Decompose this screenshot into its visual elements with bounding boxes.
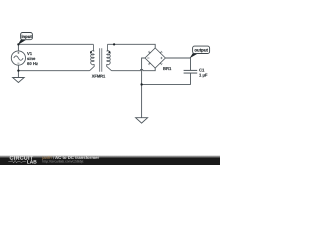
node secondary top rail dot xyxy=(113,43,115,45)
node primary phase dot xyxy=(90,51,92,53)
node V1 bottom junction xyxy=(17,70,19,72)
diode on bottom-left edge xyxy=(148,62,151,65)
wire bottom rail primary xyxy=(18,70,89,72)
wire top rail secondary to bridge top vertex xyxy=(107,44,155,48)
wire V1 top lead xyxy=(17,44,19,51)
wire bridge left vertex down to ground rail xyxy=(142,58,145,84)
wire top rail primary xyxy=(18,43,93,45)
svg-text:output: output xyxy=(194,48,208,53)
primary winding xyxy=(92,44,95,51)
wire bridge right vertex to output corner xyxy=(165,58,190,70)
capacitor C1 xyxy=(184,70,198,73)
output flag xyxy=(190,46,210,58)
svg-text:input: input xyxy=(21,34,32,39)
wire bottom rail secondary to bridge bottom vertex (hop over vertical) xyxy=(112,68,156,71)
node secondary phase dot xyxy=(109,51,111,53)
ground (left, below V1) xyxy=(13,78,25,83)
svg-text:60 Hz: 60 Hz xyxy=(27,61,38,66)
transformer XFMR1 xyxy=(90,44,112,71)
svg-text:http://circuitlab.com/c2d6bjt: http://circuitlab.com/c2d6bjt xyxy=(42,160,83,164)
input flag xyxy=(18,33,33,46)
diode on top-left edge xyxy=(148,51,151,54)
diode on bottom-right edge xyxy=(159,62,162,65)
secondary winding xyxy=(106,44,109,51)
wire V1 bottom lead to ground xyxy=(17,65,19,77)
svg-text:LAB: LAB xyxy=(27,159,37,165)
label BR1 plus sign xyxy=(160,57,162,59)
wire ground stub below bridge xyxy=(141,84,143,117)
core xyxy=(100,48,102,72)
label BR1 minus sign xyxy=(147,57,149,59)
logo wire + resistor zigzag xyxy=(8,160,26,163)
ground (right, below bridge) xyxy=(136,118,148,123)
voltage source V1 xyxy=(11,51,25,65)
diode on top-right edge xyxy=(159,51,162,54)
node input junction xyxy=(17,43,19,45)
svg-text:1 µF: 1 µF xyxy=(199,73,208,78)
svg-text:XFMR1: XFMR1 xyxy=(92,73,106,78)
wire capacitor bottom to ground rail xyxy=(142,74,191,85)
bridge rectifier BR1 xyxy=(145,48,165,68)
node ground rail junction xyxy=(140,83,142,85)
svg-text:BR1: BR1 xyxy=(163,66,172,71)
